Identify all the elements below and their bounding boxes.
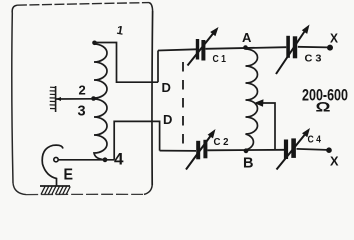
svg-text:C 1: C 1 — [213, 53, 227, 65]
transformer coil L1 top half (taps 1-2) — [94, 44, 107, 98]
terminal X bottom dot — [326, 147, 332, 153]
enclosure box: bottom-left corner — [13, 183, 26, 195]
enclosure box: left edge — [12, 13, 13, 183]
terminal X top dot — [327, 45, 333, 51]
capacitor C3 plates — [286, 36, 290, 58]
ground symbol — [40, 186, 70, 195]
bottom bus wire: D to C2 — [160, 150, 196, 152]
svg-text:3: 3 — [78, 104, 86, 120]
top bus wire: C3 to X — [298, 46, 328, 49]
svg-text:B: B — [243, 156, 253, 172]
wire: node 4 to terminal D (bottom) — [114, 121, 159, 159]
capacitor C4 plates — [284, 140, 288, 160]
enclosure box: bottom edge — [26, 193, 144, 195]
slider arrow into inductor — [262, 103, 275, 151]
enclosure box: bottom-right corner — [144, 185, 152, 194]
svg-text:C 2: C 2 — [214, 136, 229, 148]
node B dot — [244, 148, 249, 153]
bottom bus wire: C2 to C4 — [208, 149, 285, 152]
inductor between A and B — [246, 49, 258, 150]
wire: coil top to terminal D (top) — [95, 43, 159, 83]
svg-text:C 4: C 4 — [308, 134, 322, 146]
wire: chassis tap to coil — [56, 98, 93, 100]
top bus wire: D to C1 — [158, 49, 196, 50]
node A dot — [243, 45, 248, 50]
capacitor C2 plates — [196, 141, 200, 160]
svg-text:X: X — [330, 154, 339, 169]
svg-text:2: 2 — [79, 83, 86, 98]
capacitor C3 variable arrow — [276, 29, 307, 75]
svg-text:4: 4 — [114, 150, 124, 169]
capacitor C1 plates — [196, 39, 199, 60]
wire: E terminal to node 4 — [59, 159, 114, 161]
capacitor C1 variable arrow — [188, 33, 214, 66]
dashed link line between D leads — [182, 62, 184, 148]
svg-text:Ω: Ω — [316, 99, 331, 115]
svg-text:A: A — [242, 30, 252, 45]
svg-text:D: D — [162, 80, 171, 95]
chassis tap symbol (tap 2) — [50, 86, 56, 112]
terminal E circle — [54, 157, 58, 161]
junction node 4 dot — [103, 157, 108, 162]
svg-text:E: E — [64, 167, 74, 184]
coil top terminal dot (tap 1) — [92, 41, 97, 46]
pigtail lead from ground to E — [42, 145, 63, 186]
enclosure box: right edge — [151, 11, 154, 185]
enclosure box: top edge — [17, 3, 149, 6]
svg-text:D: D — [163, 112, 172, 127]
bottom bus wire: C4 to X — [297, 149, 327, 150]
top bus wire: C1 to C3 — [206, 47, 287, 49]
svg-text:C 3: C 3 — [305, 53, 322, 65]
enclosure box: top-right corner — [149, 3, 153, 11]
enclosure box: top-left corner — [12, 5, 17, 13]
svg-text:X: X — [330, 31, 338, 46]
capacitor C2 variable arrow — [186, 136, 211, 170]
coil mid tap dot (taps 2/3) — [91, 96, 96, 101]
capacitor C4 variable arrow — [277, 135, 305, 170]
wire: D top riser — [157, 51, 159, 83]
transformer coil L1 bottom half (taps 3-4) — [94, 99, 107, 160]
